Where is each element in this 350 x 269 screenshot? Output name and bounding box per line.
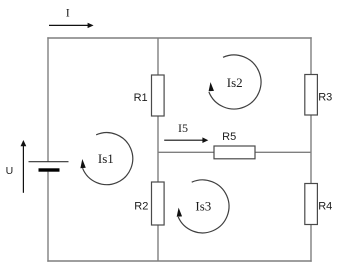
resistor R3 <box>305 75 318 116</box>
resistor R4 <box>305 184 318 225</box>
svg-text:R3: R3 <box>318 92 332 104</box>
svg-text:U: U <box>6 165 14 177</box>
svg-text:Is2: Is2 <box>227 75 243 90</box>
arrow I (current arrow top) <box>49 23 94 28</box>
wire middle branch vertical <box>157 38 159 261</box>
svg-text:I: I <box>66 6 70 20</box>
wire right outer <box>310 37 312 261</box>
voltage source U plate short thick <box>39 168 60 171</box>
svg-text:I5: I5 <box>178 121 188 135</box>
svg-text:Is3: Is3 <box>195 199 211 214</box>
voltage source U plate long <box>29 161 69 163</box>
loop current Is1 arc <box>80 133 132 185</box>
svg-text:R5: R5 <box>222 131 236 143</box>
wire bottom (node bottom rail) <box>47 260 311 262</box>
svg-text:Is1: Is1 <box>98 151 114 166</box>
loop current Is3 arc <box>177 180 229 233</box>
wire left upper (source + to top) <box>47 37 49 161</box>
resistor R2 <box>152 182 165 225</box>
svg-text:R4: R4 <box>318 201 332 213</box>
wire middle horizontal (R5 branch) <box>158 151 311 153</box>
wire left lower (source - to bottom) <box>47 172 49 262</box>
resistor R1 <box>152 75 165 116</box>
loop current Is2 arc <box>209 55 261 109</box>
arrow U (voltage arrow up) <box>21 140 27 193</box>
svg-text:R1: R1 <box>134 92 148 104</box>
resistor R5 <box>214 146 255 159</box>
svg-text:R2: R2 <box>134 200 148 212</box>
wire top (node top rail) <box>47 37 311 39</box>
arrow I5 (branch current) <box>164 137 208 143</box>
